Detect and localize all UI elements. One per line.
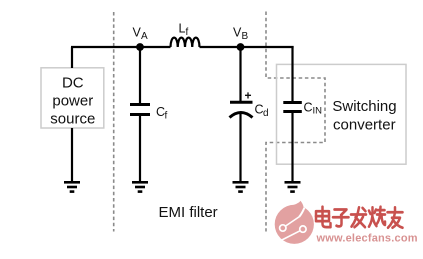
capacitor Cd (polarized) <box>230 102 253 117</box>
node VA <box>136 43 144 51</box>
dashed EMI filter left boundary <box>113 12 115 232</box>
capacitor CIN <box>283 103 302 112</box>
wire: DC source top lead <box>71 47 73 68</box>
svg-text:C: C <box>304 101 313 115</box>
svg-text:L: L <box>179 22 186 36</box>
label CIN <box>304 101 323 117</box>
svg-text:A: A <box>141 31 148 42</box>
label VB <box>233 25 249 42</box>
label Lf <box>179 22 189 39</box>
char 烧 <box>369 207 385 227</box>
svg-text:d: d <box>263 108 269 119</box>
watermark text: 电子发烧友 (stylized strokes) <box>316 207 403 228</box>
ground: DC source <box>64 182 80 191</box>
wire: VA down to Cf <box>139 47 141 105</box>
wire: DC source bottom lead <box>71 128 73 181</box>
svg-text:f: f <box>186 27 189 38</box>
wire: Cd down to ground <box>239 114 241 182</box>
svg-text:www.elecfans.com: www.elecfans.com <box>316 233 418 245</box>
char 发 <box>351 207 366 227</box>
char 友 <box>388 207 403 227</box>
node VB <box>237 43 245 51</box>
ground: Cd <box>233 182 249 191</box>
svg-text:EMI filter: EMI filter <box>159 204 218 221</box>
wire: main top rail right segment <box>200 46 294 48</box>
svg-text:+: + <box>245 88 252 102</box>
svg-text:B: B <box>242 31 249 42</box>
inductor Lf <box>171 38 200 47</box>
wire: Cf down to ground <box>139 115 141 182</box>
watermark logo disc <box>275 201 314 244</box>
label Cf <box>156 105 168 122</box>
Switching converter box <box>277 64 407 164</box>
svg-text:DC: DC <box>62 74 84 91</box>
char 子 <box>333 210 349 227</box>
svg-text:power: power <box>52 93 93 110</box>
wire: drop to CIN <box>291 46 293 103</box>
wire: main top rail left segment <box>71 46 171 48</box>
svg-text:source: source <box>50 111 95 128</box>
svg-text:f: f <box>165 111 168 122</box>
DC power source box <box>41 68 104 128</box>
wire: CIN down to ground <box>291 112 293 182</box>
wire: VB down to Cd <box>239 47 241 102</box>
char 电 <box>316 207 331 227</box>
label VA <box>133 25 149 42</box>
dashed EMI filter right boundary with CIN detour <box>266 12 325 232</box>
svg-text:IN: IN <box>313 106 323 117</box>
svg-text:Switching: Switching <box>332 98 396 115</box>
capacitor Cf <box>130 105 150 115</box>
label Cd <box>255 103 269 119</box>
ground: Cf <box>132 182 148 191</box>
ground: CIN <box>285 182 301 191</box>
svg-text:converter: converter <box>333 117 396 134</box>
